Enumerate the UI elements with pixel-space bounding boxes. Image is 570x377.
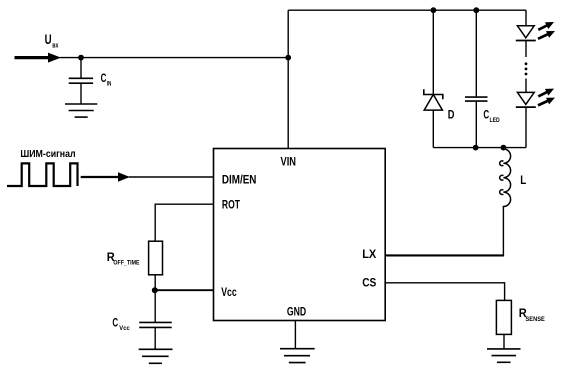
wire resistor to Vcc node xyxy=(154,275,156,290)
svg-text:GND: GND xyxy=(287,305,307,319)
wire Vcc node to CVCC xyxy=(154,290,156,322)
LED D2 xyxy=(516,92,536,147)
inductor L xyxy=(500,148,511,208)
wire GND pin to ground xyxy=(294,321,296,349)
wire input line to VIN node xyxy=(60,57,288,59)
wire Vcc xyxy=(155,289,214,291)
ground under GND pin xyxy=(280,349,315,363)
node top rail CLED junction xyxy=(473,7,479,13)
wire bottom rail (D/CLED/LED string) xyxy=(433,147,526,149)
svg-text:LED: LED xyxy=(490,117,500,124)
op-amp U1 (controller IC body) xyxy=(214,149,386,321)
svg-text:ROT: ROT xyxy=(222,198,241,212)
wire D anode lead xyxy=(432,10,434,94)
svg-text:IN: IN xyxy=(107,81,112,88)
svg-text:Vcc: Vcc xyxy=(119,325,130,332)
wire RSENSE to ground xyxy=(503,334,505,349)
svg-text:Vcc: Vcc xyxy=(221,285,237,299)
LED D2 emission arrows xyxy=(538,89,555,106)
wire CLED top lead xyxy=(475,10,477,97)
LED D1 xyxy=(516,26,536,57)
node bottom rail CLED junction xyxy=(473,145,479,151)
svg-text:LX: LX xyxy=(362,247,376,261)
resistor R_OFF_TIME xyxy=(149,241,163,275)
wire VIN vertical xyxy=(287,10,289,148)
svg-text:L: L xyxy=(520,173,526,187)
PWM arrow xyxy=(81,172,130,182)
svg-text:OFF_TIME: OFF_TIME xyxy=(113,259,140,266)
wire top rail xyxy=(288,9,526,11)
wire PWM to DIM/EN xyxy=(129,176,214,178)
node VIN input junction xyxy=(285,55,291,61)
input arrow U_vx xyxy=(15,53,62,63)
ground under RSENSE xyxy=(487,349,521,362)
label C_VCC xyxy=(112,318,130,333)
wire LED string middle lead xyxy=(525,79,527,93)
svg-text:DIM/EN: DIM/EN xyxy=(222,173,257,187)
svg-text:SENSE: SENSE xyxy=(526,316,546,323)
node top rail D junction xyxy=(431,7,437,13)
label U_vx xyxy=(45,32,59,50)
svg-text:ШИМ-сигнал: ШИМ-сигнал xyxy=(20,148,75,160)
LED D1 emission arrows xyxy=(538,22,555,39)
svg-text:C: C xyxy=(101,73,107,85)
label C_LED xyxy=(483,109,500,124)
capacitor C_IN xyxy=(69,78,93,83)
wire LX xyxy=(385,254,504,256)
node input junction xyxy=(78,55,84,61)
svg-text:C: C xyxy=(112,318,118,330)
diode D (zener) xyxy=(424,89,443,110)
wire L to LX corner xyxy=(502,208,504,256)
svg-text:U: U xyxy=(45,32,52,47)
capacitor C_LED xyxy=(465,97,488,101)
resistor R_SENSE xyxy=(496,300,511,334)
LED string dots xyxy=(525,62,528,75)
wire ROT to resistor xyxy=(155,204,213,241)
wire CLED bottom lead xyxy=(475,101,477,148)
label R_OFF_TIME xyxy=(107,250,140,267)
svg-text:вх: вх xyxy=(52,43,58,50)
ground under CVCC xyxy=(139,349,173,363)
wire CIN lead xyxy=(80,58,82,78)
wire CS to RSENSE xyxy=(385,283,504,301)
ground under CIN xyxy=(65,104,97,117)
node bottom rail inductor junction xyxy=(501,145,507,151)
label C_IN xyxy=(101,73,112,88)
capacitor C_VCC xyxy=(139,322,172,327)
svg-text:VIN: VIN xyxy=(281,155,297,169)
label R_SENSE xyxy=(519,306,546,323)
node Vcc junction xyxy=(152,287,158,293)
wire LED string top lead xyxy=(525,10,527,26)
svg-text:D: D xyxy=(448,107,455,121)
wire D cathode lead xyxy=(432,110,434,148)
wire CVCC to ground xyxy=(154,327,156,349)
wire CIN to ground xyxy=(80,83,82,104)
svg-text:CS: CS xyxy=(362,275,376,289)
PWM square wave xyxy=(7,163,78,186)
svg-text:C: C xyxy=(483,109,489,121)
